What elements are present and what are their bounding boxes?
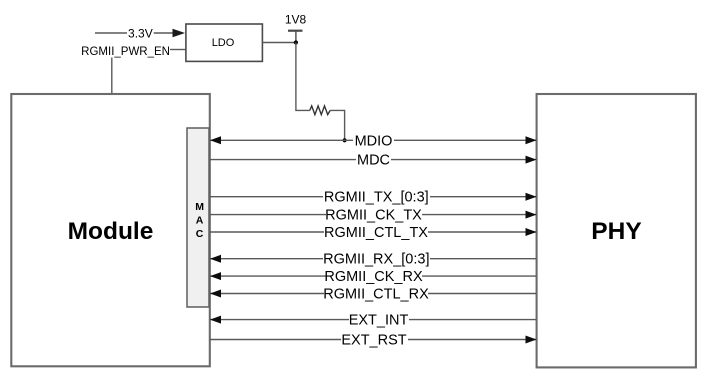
wire RGMII_CK_RX: [210, 269, 537, 285]
power symbol 1V8: [285, 13, 307, 43]
svg-text:C: C: [196, 228, 204, 240]
svg-text:RGMII_PWR_EN: RGMII_PWR_EN: [81, 46, 170, 58]
svg-text:RGMII_CTL_TX: RGMII_CTL_TX: [324, 225, 428, 241]
svg-text:LDO: LDO: [212, 37, 235, 49]
junction at 1V8 node: [294, 40, 298, 44]
wire LDO output to 1V8 node: [262, 42, 296, 44]
svg-text:RGMII_CK_TX: RGMII_CK_TX: [325, 208, 422, 224]
svg-text:Module: Module: [68, 218, 154, 245]
svg-text:M: M: [195, 201, 204, 213]
wire resistor to MDIO: [330, 110, 344, 140]
wire RGMII_CTL_RX: [210, 287, 537, 303]
wire RGMII_CK_TX: [210, 208, 537, 224]
wire RGMII_TX_[0:3]: [210, 190, 537, 206]
node RGMII_PWR_EN label: [81, 46, 186, 94]
svg-text:RGMII_CK_RX: RGMII_CK_RX: [324, 269, 423, 285]
Module box: [11, 94, 210, 366]
svg-text:RGMII_CTL_RX: RGMII_CTL_RX: [323, 287, 429, 303]
wire MDIO (bidirectional): [210, 133, 537, 149]
svg-text:PHY: PHY: [591, 218, 641, 245]
PHY box: [537, 94, 696, 367]
svg-text:MDC: MDC: [357, 153, 390, 169]
junction on MDIO line: [343, 138, 347, 142]
svg-text:EXT_RST: EXT_RST: [341, 333, 406, 349]
svg-text:A: A: [196, 214, 204, 226]
wire RGMII_CTL_TX: [210, 225, 537, 241]
wire MDC: [210, 153, 537, 169]
wire RGMII_PWR_EN to LDO: [170, 49, 186, 51]
svg-text:RGMII_RX_[0:3]: RGMII_RX_[0:3]: [323, 252, 429, 268]
wire RGMII_RX_[0:3]: [210, 252, 537, 268]
svg-text:RGMII_TX_[0:3]: RGMII_TX_[0:3]: [324, 190, 429, 206]
svg-text:3.3V: 3.3V: [128, 26, 153, 40]
wire EXT_INT: [210, 313, 537, 329]
wire 1V8 down to resistor: [296, 43, 310, 111]
resistor (pull-up on MDIO): [310, 106, 330, 115]
wire RGMII_PWR_EN drop to Module: [111, 58, 113, 95]
svg-text:MDIO: MDIO: [355, 133, 393, 149]
wire 3.3V supply line: [95, 26, 185, 40]
svg-text:1V8: 1V8: [285, 13, 307, 27]
LDO U1: [186, 24, 263, 61]
arrowhead into LDO: [173, 29, 186, 38]
svg-text:EXT_INT: EXT_INT: [349, 313, 409, 329]
MAC block: [187, 128, 209, 307]
wire EXT_RST: [210, 333, 537, 349]
